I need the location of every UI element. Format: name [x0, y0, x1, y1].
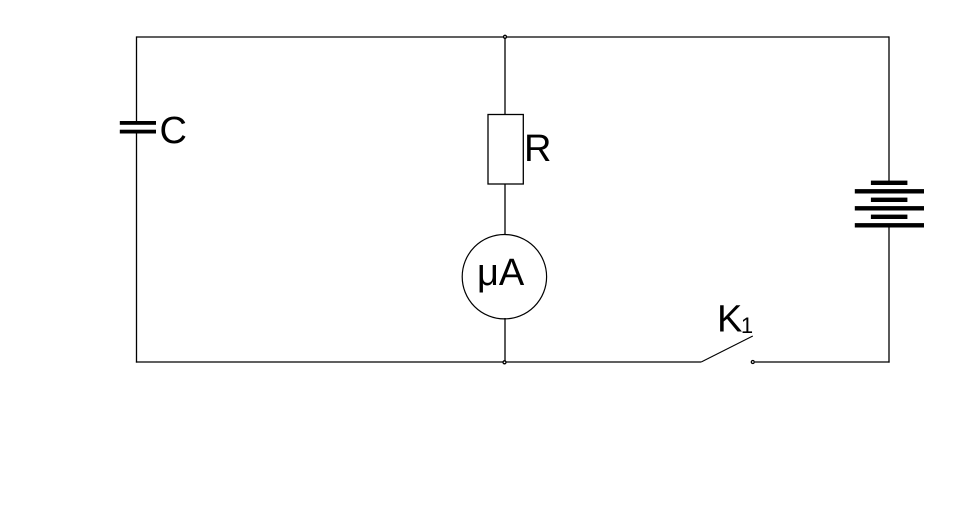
wire bottom left (bottom-left corner to switch)	[136, 361, 701, 363]
node bottom junction	[503, 361, 506, 364]
wire left lower (capacitor to bottom-left corner)	[136, 134, 138, 363]
capacitor C	[120, 121, 156, 134]
wire middle branch bottom (meter to bottom node)	[504, 318, 506, 362]
switch K1 arm	[701, 336, 753, 362]
microammeter U1 circle	[462, 235, 546, 319]
wire right upper (top-right corner to battery)	[888, 36, 890, 181]
wire left upper (top-left corner to capacitor)	[136, 36, 138, 122]
svg-text:K1: K1	[717, 299, 753, 341]
svg-text:μA: μA	[477, 252, 525, 294]
wire bottom right (switch contact to bottom-right corner)	[755, 361, 890, 363]
battery (3 cells)	[855, 181, 924, 228]
wire middle branch top (top node to resistor)	[504, 37, 506, 115]
wire top	[137, 36, 890, 38]
node top junction	[504, 35, 507, 38]
svg-text:R: R	[524, 128, 551, 170]
svg-text:C: C	[160, 110, 187, 152]
wire middle branch mid (resistor to meter)	[504, 184, 506, 236]
switch K1 contact dot	[751, 361, 754, 364]
wire right lower (battery to bottom-right corner)	[888, 228, 890, 363]
resistor R	[488, 115, 523, 185]
